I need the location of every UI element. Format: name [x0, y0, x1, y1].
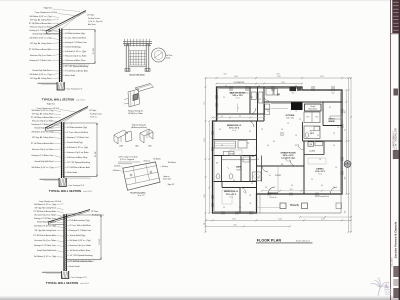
svg-text:LIN: LIN [216, 163, 218, 165]
svg-text:7'2: 7'2 [225, 85, 227, 87]
svg-text:2'8: 2'8 [249, 195, 251, 197]
svg-text:Termite Shield (Typ): Termite Shield (Typ) [65, 46, 81, 49]
svg-text:1/2" CDX Plywood Sheathing: 1/2" CDX Plywood Sheathing [70, 254, 93, 257]
svg-text:16'4: 16'4 [345, 110, 347, 113]
svg-text:2'8: 2'8 [251, 183, 253, 185]
svg-text:Hurricane Clip @ ea. Rafter: Hurricane Clip @ ea. Rafter [30, 26, 52, 29]
svg-text:Hurricane Clip @ ea. Rafter: Hurricane Clip @ ea. Rafter [34, 214, 56, 217]
svg-text:2'8: 2'8 [333, 187, 335, 189]
svg-text:Pan: Pan [316, 117, 319, 119]
svg-text:Flashing: Flashing [162, 166, 168, 168]
svg-text:Termite Shield (Typ): Termite Shield (Typ) [67, 141, 83, 144]
svg-text:14'4: 14'4 [290, 189, 293, 191]
svg-text:5/8" Gyp. Bd. Ceiling Finish: 5/8" Gyp. Bd. Ceiling Finish [30, 43, 51, 45]
svg-text:Finish Grade: Finish Grade [67, 171, 77, 174]
svg-text:5/8" Gyp. Bd. Ceiling Finish: 5/8" Gyp. Bd. Ceiling Finish [32, 137, 53, 139]
svg-text:6'0: 6'0 [281, 129, 283, 131]
svg-text:Hurricane Clip @ ea. Rafter: Hurricane Clip @ ea. Rafter [30, 54, 52, 57]
svg-text:10'0 x 11'0: 10'0 x 11'0 [315, 171, 326, 173]
svg-text:2'8: 2'8 [221, 145, 223, 147]
svg-text:2'8: 2'8 [261, 129, 263, 131]
svg-text:3040: 3040 [223, 74, 226, 76]
svg-text:Vented Vinyl Soffit Panel: Vented Vinyl Soffit Panel [32, 69, 52, 72]
svg-text:3'0: 3'0 [267, 111, 269, 113]
svg-text:Pre-Eng Trusses: Pre-Eng Trusses [92, 215, 104, 217]
svg-text:14'6: 14'6 [277, 76, 280, 78]
svg-text:11'6 x 13'0: 11'6 x 13'0 [286, 118, 294, 120]
svg-text:9'0 clg: 9'0 clg [236, 98, 240, 100]
svg-text:18'2: 18'2 [320, 76, 323, 78]
svg-text:2x6 Rafters @ 16" o.c. (Typ): 2x6 Rafters @ 16" o.c. (Typ) [29, 37, 51, 40]
svg-text:5'6: 5'6 [287, 123, 289, 125]
svg-text:3'0: 3'0 [219, 129, 221, 131]
svg-text:11'0 x 11'0: 11'0 x 11'0 [226, 194, 237, 196]
svg-text:8'-1 5/8": 8'-1 5/8" [95, 151, 97, 157]
svg-text:1/4" Slope: 1/4" Slope [87, 15, 94, 17]
svg-text:8'0x9'6: 8'0x9'6 [236, 169, 241, 171]
svg-text:14'0: 14'0 [321, 219, 324, 221]
svg-text:2x8 Beam: 2x8 Beam [113, 170, 121, 172]
svg-text:P.T. Sill Plate w/ Anchor Bolt: P.T. Sill Plate w/ Anchor Bolts [29, 22, 52, 25]
svg-text:2'8: 2'8 [309, 151, 311, 153]
svg-text:Finish Grade: Finish Grade [70, 265, 80, 268]
svg-text:scale: 3/4"=1': scale: 3/4"=1' [80, 283, 90, 285]
svg-text:Ridge Vent: Ridge Vent [47, 103, 56, 106]
svg-text:(Scale 1/4"): (Scale 1/4") [137, 195, 145, 197]
svg-text:2'6: 2'6 [239, 207, 241, 209]
svg-text:12'0: 12'0 [345, 210, 347, 213]
svg-text:2x6 Rafters @ 16" o.c. (Typ): 2x6 Rafters @ 16" o.c. (Typ) [34, 225, 56, 228]
svg-text:12'0: 12'0 [204, 194, 206, 197]
svg-text:Porch: Porch [290, 203, 298, 207]
svg-text:7'2: 7'2 [295, 111, 297, 113]
svg-text:P.T. Sill Plate w/ Anchor Bolt: P.T. Sill Plate w/ Anchor Bolts [33, 234, 56, 237]
svg-text:Comp. Shingles over 15# Felt: Comp. Shingles over 15# Felt [37, 107, 60, 110]
svg-text:Footing w/ 2 #5 Rebar Cont.: Footing w/ 2 #5 Rebar Cont. [32, 154, 54, 157]
svg-text:4'0: 4'0 [321, 185, 323, 187]
svg-text:Hurricane Clip @ ea. Rafter: Hurricane Clip @ ea. Rafter [34, 239, 56, 242]
svg-text:Comp. Shingles over 15# Felt: Comp. Shingles over 15# Felt [35, 11, 58, 14]
svg-text:24'4 MASTER: 24'4 MASTER [234, 81, 245, 84]
svg-text:3040: 3040 [332, 92, 335, 94]
svg-text:P.T. Sill Plate w/ Anchor Bolt: P.T. Sill Plate w/ Anchor Bolts [65, 70, 88, 73]
svg-text:2'4: 2'4 [257, 159, 259, 161]
svg-text:3'0: 3'0 [285, 159, 287, 161]
svg-text:2x6 Rafters @ 16" o.c. (Typ): 2x6 Rafters @ 16" o.c. (Typ) [34, 203, 56, 206]
svg-text:Hurricane Clip @ ea. Rafter: Hurricane Clip @ ea. Rafter [32, 120, 54, 123]
svg-text:3'0: 3'0 [223, 97, 225, 99]
svg-text:Hurricane Clip @ ea. Rafter: Hurricane Clip @ ea. Rafter [70, 244, 92, 247]
svg-text:E01-4457: E01-4457 [392, 257, 394, 267]
svg-text:2x6 Studs @ 16" o.c. (Typ): 2x6 Studs @ 16" o.c. (Typ) [65, 50, 86, 53]
svg-text:3'0: 3'0 [221, 116, 223, 118]
svg-text:6'0: 6'0 [204, 223, 206, 225]
svg-text:Vented Vinyl Soffit Panel: Vented Vinyl Soffit Panel [37, 221, 57, 224]
svg-text:P.T. Sill Plate w/ Anchor Bolt: P.T. Sill Plate w/ Anchor Bolts [33, 210, 56, 213]
svg-text:24'4: 24'4 [234, 76, 237, 78]
svg-text:6'0: 6'0 [233, 180, 235, 182]
svg-text:Scale: 1/4"=1'-0": Scale: 1/4"=1'-0" [296, 241, 310, 243]
svg-text:1x6 Fascia w/ Alum. Wrap: 1x6 Fascia w/ Alum. Wrap [65, 59, 85, 62]
svg-text:5/8" Gyp. Bd. Ceiling Finish: 5/8" Gyp. Bd. Ceiling Finish [35, 208, 56, 210]
svg-text:4'6: 4'6 [267, 145, 269, 147]
svg-text:BC4: BC4 [148, 146, 151, 148]
svg-text:9'0 clg: 9'0 clg [229, 196, 233, 198]
svg-text:2x6 Rafters @ 16" o.c. (Typ): 2x6 Rafters @ 16" o.c. (Typ) [31, 166, 53, 169]
svg-text:2'6: 2'6 [251, 97, 253, 99]
svg-text:P.T. Sill Plate w/ Anchor Bolt: P.T. Sill Plate w/ Anchor Bolts [31, 142, 54, 145]
svg-text:Footing w/ 2 #5 Rebar Cont.: Footing w/ 2 #5 Rebar Cont. [32, 123, 54, 126]
svg-text:5/8" Gyp. Bd. Ceiling Finish: 5/8" Gyp. Bd. Ceiling Finish [35, 230, 56, 232]
svg-text:2'8: 2'8 [259, 99, 261, 101]
svg-text:TYPICAL WALL SECTION: TYPICAL WALL SECTION [42, 99, 74, 102]
svg-text:4'6: 4'6 [249, 131, 251, 133]
svg-text:FOYER: FOYER [275, 175, 282, 177]
svg-text:2x6 Rafters @ 16" o.c. (Typ): 2x6 Rafters @ 16" o.c. (Typ) [29, 15, 51, 18]
svg-text:WH: WH [309, 144, 312, 146]
svg-text:1/4" Slope: 1/4" Slope [91, 211, 98, 213]
svg-text:Hurricane Clip @ ea. Rafter: Hurricane Clip @ ea. Rafter [65, 55, 87, 58]
svg-text:CL: CL [250, 203, 252, 205]
svg-text:House Wall: House Wall [163, 178, 171, 180]
svg-text:12'6: 12'6 [295, 145, 298, 147]
svg-text:2: 2 [238, 108, 239, 110]
svg-text:4" Conc. Slab w/ 6x6 Mesh: 4" Conc. Slab w/ 6x6 Mesh [67, 132, 88, 134]
svg-text:2'6: 2'6 [335, 167, 337, 169]
svg-text:Vented Vinyl Soffit Panel: Vented Vinyl Soffit Panel [37, 249, 57, 252]
svg-text:2x6 Rafters @ 16" o.c. (Typ): 2x6 Rafters @ 16" o.c. (Typ) [34, 255, 56, 258]
svg-text:Footing w/ 2 #5 Rebar Cont.: Footing w/ 2 #5 Rebar Cont. [34, 217, 56, 220]
svg-text:R-19 Batt Insulation (Typ): R-19 Batt Insulation (Typ) [65, 32, 85, 35]
svg-text:6'0 Frch Dr: 6'0 Frch Dr [270, 197, 277, 199]
svg-text:FLOOR PLAN: FLOOR PLAN [257, 238, 282, 242]
svg-text:scale: 3/4"=1': scale: 3/4"=1' [83, 191, 93, 193]
svg-text:2'8: 2'8 [257, 177, 259, 179]
svg-text:TYPICAL WALL SECTION: TYPICAL WALL SECTION [46, 282, 78, 285]
svg-text:2x6 Rafters @ 16" o.c. (Typ): 2x6 Rafters @ 16" o.c. (Typ) [29, 73, 51, 76]
svg-text:Footing w/ 2 #5 Rebar Cont.: Footing w/ 2 #5 Rebar Cont. [70, 229, 92, 232]
svg-text:TYPICAL WALL SECTION: TYPICAL WALL SECTION [49, 190, 81, 193]
svg-text:Island/: Island/ [310, 106, 316, 108]
svg-text:10'6: 10'6 [281, 82, 284, 84]
svg-text:KITCHEN: KITCHEN [286, 115, 295, 117]
svg-text:Pan: Pan [307, 117, 310, 119]
svg-text:H2.5A @ ea. Rafter: H2.5A @ ea. Rafter [128, 112, 143, 115]
svg-text:MASTER BDRM: MASTER BDRM [230, 92, 246, 95]
svg-text:3040: 3040 [292, 92, 295, 94]
svg-text:R-19 Batt Insulation (Typ): R-19 Batt Insulation (Typ) [70, 219, 90, 222]
svg-text:5'2: 5'2 [239, 116, 241, 118]
svg-text:Finish Grade: Finish Grade [65, 74, 75, 77]
svg-text:@ 24" o.c. (Typ of 4): @ 24" o.c. (Typ of 4) [88, 21, 103, 23]
svg-text:3'0: 3'0 [223, 207, 225, 209]
svg-text:2x6 Studs @ 16" o.c. (Typ): 2x6 Studs @ 16" o.c. (Typ) [70, 239, 91, 242]
svg-text:5/8" Gyp. Bd. Ceiling Finish: 5/8" Gyp. Bd. Ceiling Finish [30, 20, 51, 22]
svg-text:2'8: 2'8 [291, 185, 293, 187]
svg-text:P.T. Sill Plate w/ Anchor Bolt: P.T. Sill Plate w/ Anchor Bolts [70, 260, 93, 263]
svg-text:Footing w/ 2 #5 Rebar Cont.: Footing w/ 2 #5 Rebar Cont. [34, 244, 56, 247]
svg-text:Footing w/ 2 #5 Rebar Cont.: Footing w/ 2 #5 Rebar Cont. [67, 136, 89, 139]
svg-text:Vented Vinyl Soffit Panel: Vented Vinyl Soffit Panel [34, 160, 54, 163]
svg-text:9'0 clg: 9'0 clg [318, 174, 322, 176]
svg-text:scale: 3/4"=1': scale: 3/4"=1' [76, 100, 86, 102]
svg-text:8'-1 5/8": 8'-1 5/8" [99, 238, 101, 244]
svg-text:LCE4: LCE4 [119, 146, 123, 148]
svg-text:5'2: 5'2 [345, 129, 347, 131]
svg-text:P.T. Sill Plate w/ Anchor Bolt: P.T. Sill Plate w/ Anchor Bolts [29, 48, 52, 51]
svg-text:2x6 Rafters @ 16" o.c. (Typ): 2x6 Rafters @ 16" o.c. (Typ) [31, 131, 53, 134]
svg-text:Ridge Vent: Ridge Vent [44, 7, 53, 10]
svg-text:8'-1 5/8": 8'-1 5/8" [93, 48, 95, 54]
svg-text:24x10 Screened Porch: 24x10 Screened Porch [315, 196, 329, 198]
svg-text:2'8: 2'8 [299, 119, 301, 121]
svg-text:4" Conc. Slab w/ 6x6 Mesh: 4" Conc. Slab w/ 6x6 Mesh [70, 225, 91, 227]
svg-text:Roof Line: Roof Line [144, 161, 151, 163]
svg-text:1/2" CDX Plywood Sheathing: 1/2" CDX Plywood Sheathing [65, 65, 88, 68]
svg-text:3'0: 3'0 [295, 85, 297, 87]
svg-text:Porch Framing Plan: Porch Framing Plan [130, 193, 145, 195]
svg-text:14'6: 14'6 [281, 164, 284, 166]
svg-text:9'0 clg: 9'0 clg [232, 130, 236, 132]
svg-text:12'8: 12'8 [204, 138, 206, 141]
svg-text:2'8: 2'8 [295, 135, 297, 137]
svg-text:2'8: 2'8 [333, 133, 335, 135]
svg-text:13'2: 13'2 [345, 176, 347, 179]
svg-text:Jacobs Homes & Daniels: Jacobs Homes & Daniels [393, 221, 397, 258]
svg-text:2'8: 2'8 [247, 143, 249, 145]
svg-text:P.T. Sill Plate w/ Anchor Bolt: P.T. Sill Plate w/ Anchor Bolts [67, 166, 90, 169]
svg-text:Entry Trellis Detail: Entry Trellis Detail [130, 74, 145, 77]
svg-text:GREAT ROOM: GREAT ROOM [281, 152, 296, 155]
svg-text:1x6 Fascia w/ Alum. Wrap: 1x6 Fascia w/ Alum. Wrap [67, 156, 87, 159]
svg-text:BDRM: BDRM [329, 121, 335, 123]
svg-text:14'6 x 13'0: 14'6 x 13'0 [232, 94, 243, 97]
svg-text:2'8: 2'8 [265, 187, 267, 189]
svg-text:22'0: 22'0 [234, 225, 237, 227]
svg-text:1x6 Fascia w/ Alum. Wrap: 1x6 Fascia w/ Alum. Wrap [70, 249, 90, 252]
svg-text:P.T. Sill Plate w/ Anchor Bolt: P.T. Sill Plate w/ Anchor Bolts [31, 116, 54, 119]
svg-text:Roof Below: Roof Below [168, 162, 177, 164]
svg-text:2'6: 2'6 [317, 135, 319, 137]
svg-text:Termite Shield (Typ): Termite Shield (Typ) [70, 234, 86, 237]
svg-text:8'0: 8'0 [273, 141, 275, 143]
svg-text:11'2: 11'2 [204, 101, 206, 104]
svg-text:Hurricane Clip @ ea. Rafter: Hurricane Clip @ ea. Rafter [32, 148, 54, 151]
svg-text:Footing w/ 2 #5 Rebar Cont.: Footing w/ 2 #5 Rebar Cont. [30, 59, 52, 62]
svg-text:3'0: 3'0 [329, 107, 331, 109]
svg-text:Pre-Eng Trusses: Pre-Eng Trusses [90, 114, 102, 116]
svg-text:16'2: 16'2 [232, 219, 235, 221]
svg-text:3'0: 3'0 [311, 179, 313, 181]
svg-text:(vaulted clg): (vaulted clg) [282, 157, 295, 160]
svg-text:14'4: 14'4 [278, 219, 281, 221]
svg-text:3040: 3040 [246, 92, 249, 94]
svg-text:4'0: 4'0 [333, 145, 335, 147]
svg-text:1/2" CDX Plywood Sheathing: 1/2" CDX Plywood Sheathing [67, 161, 90, 164]
svg-text:R-19 Batt Insulation (Typ): R-19 Batt Insulation (Typ) [67, 126, 87, 129]
svg-text:3'0: 3'0 [269, 175, 271, 177]
svg-text:5/8" Gyp. Bd. Ceiling Finish: 5/8" Gyp. Bd. Ceiling Finish [30, 78, 51, 80]
svg-text:Slope 1/4": Slope 1/4" [168, 184, 175, 186]
svg-text:CLOSET: CLOSET [228, 153, 234, 155]
svg-text:2'8: 2'8 [337, 127, 339, 129]
svg-text:Vented Vinyl Soffit Panel: Vented Vinyl Soffit Panel [32, 33, 52, 36]
svg-text:2'8: 2'8 [319, 159, 321, 161]
svg-text:@ 24" o.c.: @ 24" o.c. [90, 116, 98, 118]
svg-text:HAMPSTEAD N.C.: HAMPSTEAD N.C. [392, 130, 395, 147]
svg-text:11'0 x 11'6: 11'0 x 11'6 [229, 127, 240, 129]
svg-text:1/4" Slope: 1/4" Slope [89, 110, 96, 112]
svg-text:5/8" Gyp. Bd. Ceiling Finish: 5/8" Gyp. Bd. Ceiling Finish [32, 114, 53, 116]
svg-text:5'4: 5'4 [258, 85, 260, 87]
svg-text:Comp. Shingles over 15# Felt: Comp. Shingles over 15# Felt [39, 200, 62, 203]
svg-text:Hurricane Clip @ ea. Rafter: Hurricane Clip @ ea. Rafter [67, 151, 89, 154]
svg-text:3040: 3040 [276, 74, 279, 76]
svg-text:4" Conc. Slab w/ 6x6 Mesh: 4" Conc. Slab w/ 6x6 Mesh [65, 38, 86, 40]
svg-text:2x6 Studs @ 16" o.c. (Typ): 2x6 Studs @ 16" o.c. (Typ) [67, 146, 88, 149]
svg-text:Pre-Eng Trusses: Pre-Eng Trusses [88, 18, 100, 20]
svg-text:Footing w/ 2 #5 Rebar Cont.: Footing w/ 2 #5 Rebar Cont. [65, 41, 87, 44]
svg-text:4: 4 [347, 166, 348, 168]
svg-text:Vented Vinyl Soffit Panel: Vented Vinyl Soffit Panel [34, 127, 54, 130]
svg-text:Footing w/ 2 #5 Rebar Cont.: Footing w/ 2 #5 Rebar Cont. [30, 29, 52, 32]
